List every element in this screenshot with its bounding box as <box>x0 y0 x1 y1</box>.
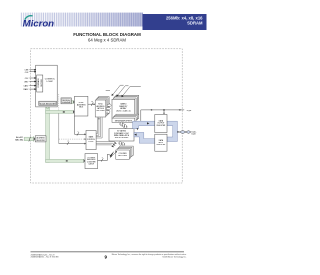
svg-text:DQ3: DQ3 <box>192 134 196 136</box>
svg-text:9: 9 <box>102 157 103 159</box>
svg-text:©2003 Micron Technology, Inc.: ©2003 Micron Technology, Inc. <box>162 255 187 258</box>
address register box <box>35 136 46 142</box>
svg-text:LOGIC: LOGIC <box>88 141 94 143</box>
header title box <box>143 14 207 30</box>
mode register box <box>39 101 57 105</box>
refresh counter <box>61 98 71 104</box>
wire read pipe gating to output register <box>133 121 155 129</box>
header stripe band <box>20 13 143 27</box>
command decode box <box>37 75 43 92</box>
svg-text:64 Meg x 4 SDRAM: 64 Meg x 4 SDRAM <box>88 38 126 43</box>
I/O gating to column decoder connectors <box>119 141 125 146</box>
svg-text:DECODE: DECODE <box>41 78 43 86</box>
data output register <box>155 115 167 133</box>
svg-text:COUNTER: COUNTER <box>62 102 71 104</box>
I/O gating box <box>109 129 134 141</box>
Micron logo <box>23 16 55 30</box>
row-address mux <box>75 96 88 116</box>
svg-text:(8,192 x 2,048 x 4): (8,192 x 2,048 x 4) <box>116 110 131 112</box>
svg-text:REFRESH: REFRESH <box>62 100 70 102</box>
svg-text:LATCH: LATCH <box>89 163 95 166</box>
column address counter box <box>85 154 98 169</box>
svg-text:13: 13 <box>91 101 93 103</box>
row lines latch to array arrows <box>106 103 112 114</box>
svg-text:WRITE DRIVERS: WRITE DRIVERS <box>115 137 129 139</box>
DQ buffers <box>177 131 179 133</box>
green arrow into mode register <box>46 105 50 108</box>
svg-text:2: 2 <box>78 131 79 133</box>
svg-text:REGISTER: REGISTER <box>157 144 166 146</box>
control logic box <box>36 65 58 107</box>
svg-text:ROW-: ROW- <box>98 104 103 106</box>
footer rule <box>31 251 185 254</box>
wire mux to bank control with slash <box>75 116 85 134</box>
svg-text:DECODER: DECODER <box>118 155 128 157</box>
column decoder stack <box>116 146 133 159</box>
svg-text:DQM: DQM <box>187 110 192 112</box>
column address bus to column decoder with slash 9 <box>98 154 110 160</box>
sense amps to I/O gating connectors <box>120 122 128 129</box>
wire mux to row latch with slash 13 <box>88 103 94 105</box>
bank lines diagonals into memory array <box>106 85 141 96</box>
svg-text:FUNCTIONAL BLOCK DIAGRAM: FUNCTIONAL BLOCK DIAGRAM <box>73 32 141 37</box>
write arrow into gating <box>134 134 136 136</box>
slash 13 on green bus <box>63 111 65 112</box>
wire green horizontal to column counter <box>46 159 84 162</box>
wire vertical and BA bus line to bank control with slash 2 <box>58 94 60 110</box>
wire green horizontal to row mux <box>46 110 74 113</box>
svg-text:COMMAND: COMMAND <box>37 78 40 88</box>
bank select risers into latch stack <box>96 117 102 138</box>
wire green vertical main <box>46 107 50 162</box>
DQM line <box>141 110 184 121</box>
green bus: A0-A12 BA0 BA1 input arrow <box>24 136 35 141</box>
diagram dashed border <box>31 49 183 183</box>
pins CKE CLK CS WE CAS RAS <box>29 70 34 89</box>
green address bus verticals and horizontals <box>46 101 84 163</box>
bank control logic box <box>86 131 96 150</box>
dark arrowheads on green buses <box>73 110 75 114</box>
green stub refresh counter to row mux <box>71 101 73 104</box>
svg-text:DECODER: DECODER <box>96 110 105 112</box>
svg-text:Micron: Micron <box>23 19 55 30</box>
sense amplifiers strip <box>112 114 139 122</box>
data input register <box>155 134 167 151</box>
svg-text:LOGIC: LOGIC <box>47 81 54 83</box>
svg-text:256MSDRAM.fm – Rev. E 9/03 EN: 256MSDRAM.fm – Rev. E 9/03 EN <box>31 256 59 259</box>
svg-text:REGISTER: REGISTER <box>36 140 45 142</box>
svg-text:SENSE AMPLIFIERS: SENSE AMPLIFIERS <box>115 119 133 122</box>
svg-text:SDRAM: SDRAM <box>187 21 203 26</box>
bank select lines into column decoder stack <box>96 142 116 147</box>
bank line diagonal to column decoder <box>110 152 117 159</box>
blue data pipes <box>133 121 178 143</box>
row-address latch & decoder stack <box>95 97 109 117</box>
read arrow in pipe <box>147 122 149 124</box>
memory array bank stack <box>112 95 139 118</box>
svg-text:2: 2 <box>68 141 69 143</box>
wire write pipe input register to gating <box>134 132 155 143</box>
wire pipe output register to DQ and input register <box>167 121 177 141</box>
svg-text:MODE REGISTER: MODE REGISTER <box>40 103 56 105</box>
dashed clock line to bank control <box>59 138 85 140</box>
svg-text:BA0, BA1: BA0, BA1 <box>15 138 23 141</box>
svg-text:REGISTER: REGISTER <box>157 125 166 127</box>
DQM arrow into gating <box>137 128 139 130</box>
